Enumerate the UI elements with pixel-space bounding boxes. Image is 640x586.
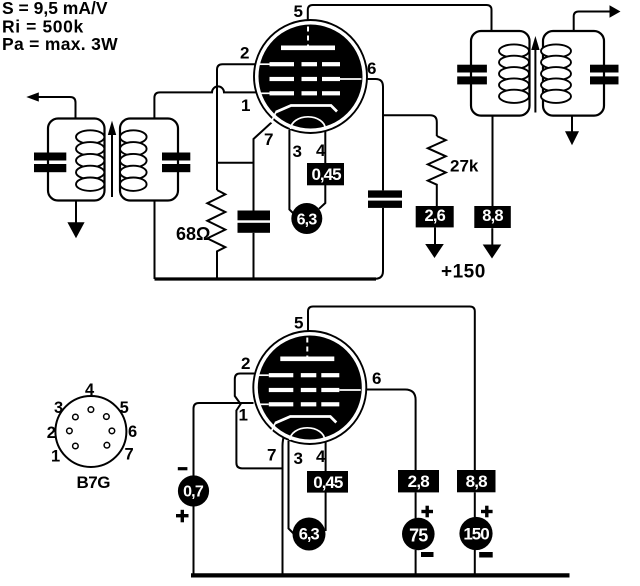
svg-text:Pa = max. 3W: Pa = max. 3W <box>2 34 118 54</box>
svg-text:4: 4 <box>316 447 326 466</box>
svg-text:2: 2 <box>241 354 250 373</box>
svg-text:2: 2 <box>47 424 56 442</box>
svg-text:6,3: 6,3 <box>299 526 320 544</box>
svg-text:3: 3 <box>293 142 302 161</box>
svg-text:8,8: 8,8 <box>466 472 488 491</box>
svg-text:6,3: 6,3 <box>297 212 318 229</box>
svg-text:1: 1 <box>51 448 60 466</box>
svg-text:5: 5 <box>294 2 303 21</box>
svg-text:1: 1 <box>239 406 248 425</box>
svg-text:150: 150 <box>463 525 489 544</box>
svg-text:6: 6 <box>128 423 137 441</box>
svg-text:5: 5 <box>120 399 129 417</box>
svg-text:6: 6 <box>372 369 381 388</box>
svg-text:0,45: 0,45 <box>311 165 341 184</box>
svg-text:68Ω: 68Ω <box>176 224 210 244</box>
svg-text:3: 3 <box>294 449 303 468</box>
svg-text:75: 75 <box>409 525 428 545</box>
svg-text:8,8: 8,8 <box>482 207 503 225</box>
svg-text:7: 7 <box>267 446 276 465</box>
svg-text:0,7: 0,7 <box>183 484 204 501</box>
svg-text:3: 3 <box>54 399 63 417</box>
svg-text:B7G: B7G <box>77 473 111 492</box>
svg-text:7: 7 <box>125 446 134 464</box>
svg-text:4: 4 <box>85 381 95 399</box>
svg-text:2: 2 <box>240 44 249 63</box>
svg-text:S = 9,5 mA/V: S = 9,5 mA/V <box>2 0 108 18</box>
svg-text:2,8: 2,8 <box>408 472 430 491</box>
svg-text:2,6: 2,6 <box>425 207 446 225</box>
svg-text:5: 5 <box>294 314 303 333</box>
svg-text:1: 1 <box>241 96 250 115</box>
svg-text:6: 6 <box>367 59 376 78</box>
svg-text:7: 7 <box>264 130 273 149</box>
svg-text:27k: 27k <box>450 157 479 176</box>
svg-text:4: 4 <box>316 141 326 160</box>
svg-text:0,45: 0,45 <box>313 473 343 492</box>
svg-text:+150: +150 <box>441 262 486 283</box>
